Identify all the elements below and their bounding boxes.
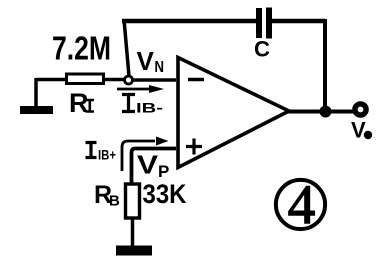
svg-text:B: B: [109, 193, 120, 210]
svg-text:N: N: [155, 59, 165, 76]
svg-text:V: V: [137, 46, 155, 76]
svg-text:IB+: IB+: [98, 147, 116, 163]
svg-text:4: 4: [288, 174, 316, 235]
svg-text:IB-: IB-: [136, 100, 163, 116]
svg-text:33K: 33K: [143, 179, 187, 209]
svg-text:V: V: [351, 118, 366, 143]
svg-text:R: R: [69, 88, 89, 118]
svg-text:7.2M: 7.2M: [52, 30, 111, 67]
svg-text:C: C: [254, 37, 270, 62]
svg-text:V: V: [137, 150, 159, 180]
